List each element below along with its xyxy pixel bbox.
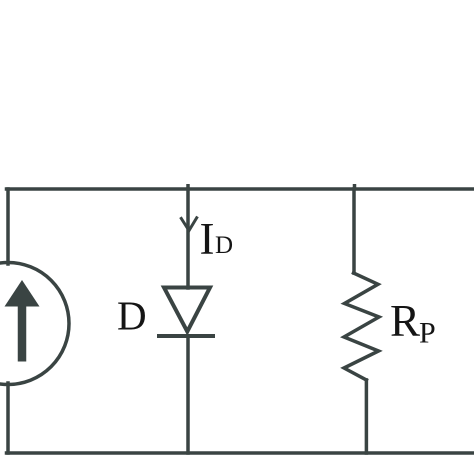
diode cathode bar: [157, 334, 215, 338]
wire: left branch upper segment: [6, 189, 10, 264]
wire: resistor top lead: [352, 189, 356, 273]
svg-text:D: D: [215, 232, 233, 259]
node: resistor junction tick on top bus: [353, 184, 357, 189]
svg-text:R: R: [390, 296, 420, 346]
svg-text:I: I: [200, 214, 215, 264]
svg-text:P: P: [419, 317, 436, 350]
wire: resistor bottom lead: [365, 380, 369, 453]
wire: diode top lead: [186, 189, 190, 288]
wire: left branch lower segment: [6, 383, 10, 453]
wire: top bus: [7, 187, 474, 191]
label RP (shunt resistor): [390, 296, 436, 350]
wire: diode bottom lead: [186, 336, 190, 453]
current source arrow shaft: [18, 302, 27, 362]
resistor RP zigzag: [344, 273, 379, 380]
arrow: diode current direction (chevron): [181, 218, 196, 231]
current source (circle): [0, 263, 69, 385]
wire: bottom bus: [7, 451, 474, 455]
current source arrow head: [5, 280, 40, 307]
label ID (diode current): [200, 214, 234, 264]
svg-text:D: D: [117, 293, 147, 339]
diode D (anode triangle): [164, 288, 210, 332]
node: diode junction tick on top bus: [186, 184, 190, 189]
